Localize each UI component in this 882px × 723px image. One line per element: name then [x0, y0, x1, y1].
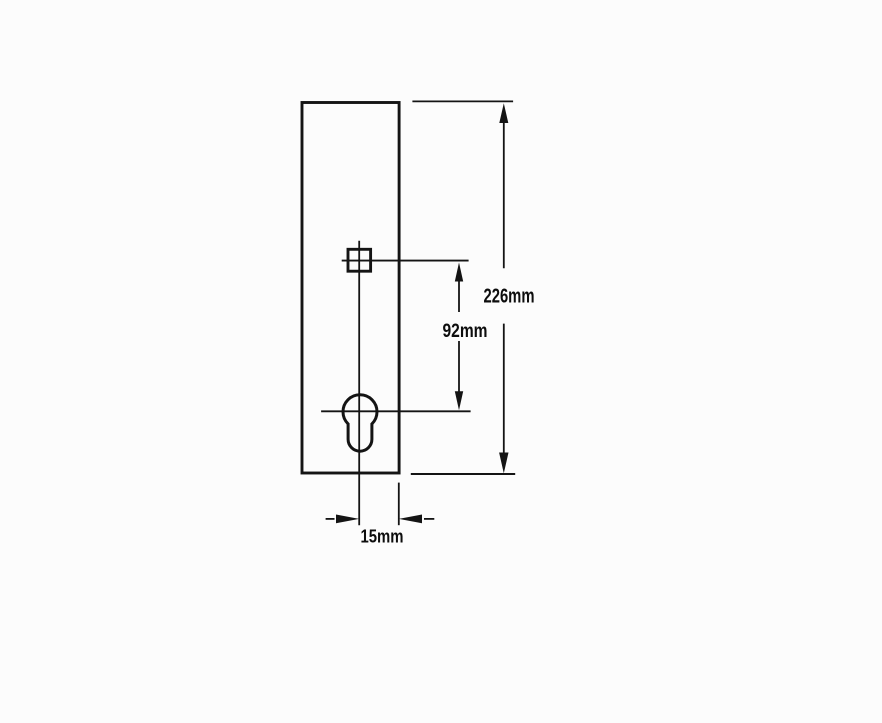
svg-text:226mm: 226mm: [484, 286, 535, 308]
svg-text:15mm: 15mm: [361, 527, 404, 547]
svg-text:92mm: 92mm: [443, 321, 488, 342]
